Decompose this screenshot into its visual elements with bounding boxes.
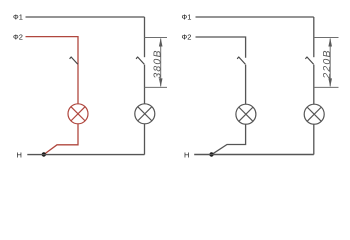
dimension tick top (left circuit) [145, 37, 168, 39]
dimension tick bottom (left circuit) [145, 86, 168, 88]
switch S2 (black branch, left circuit) [136, 57, 144, 65]
lamp HL4 (right circuit) [304, 104, 324, 124]
lamp HL3 (right circuit) [236, 104, 256, 124]
svg-text:380В: 380В [152, 49, 164, 78]
svg-text:220В: 220В [321, 49, 333, 79]
lamp HL2 (left circuit) [135, 104, 155, 124]
wire black lamp-to-neutral (left circuit) [144, 124, 146, 155]
wire red switch-to-lamp (left circuit) [77, 65, 79, 104]
node junction dot (left circuit) [42, 152, 46, 156]
dimension arrowhead up (left circuit) [159, 38, 163, 47]
dimension arrowhead down (left circuit) [159, 78, 163, 87]
wire Ф2 horizontal red (left circuit) [26, 37, 79, 65]
wire Ф1 horizontal (left circuit) [26, 16, 145, 18]
wire neutral horizontal (right circuit) [194, 154, 314, 156]
svg-text:Ф2: Ф2 [13, 33, 23, 42]
wire black switch-to-lamp (left circuit) [144, 65, 146, 104]
wire Ф1 branch vertical upper (right circuit) [313, 17, 315, 57]
dimension tick bottom (right circuit) [314, 86, 339, 88]
lamp HL1 red (left circuit) [68, 104, 88, 124]
wire Ф1 horizontal (right circuit) [196, 16, 314, 18]
switch S3 (left branch, right circuit) [237, 57, 245, 65]
wire neutral horizontal (left circuit) [27, 154, 144, 156]
dimension arrowhead up (right circuit) [328, 38, 332, 47]
wire switch-to-lamp (left branch, right circuit) [245, 65, 247, 105]
svg-text:Н: Н [184, 150, 189, 159]
wire Ф1 branch vertical upper (left circuit) [144, 17, 146, 57]
dimension arrowhead down (right circuit) [328, 78, 332, 87]
wire lamp-to-neutral (right branch, right circuit) [313, 124, 315, 154]
wire switch-to-lamp (right branch, right circuit) [313, 65, 315, 105]
dimension arrow line 380В (left circuit) [160, 39, 162, 87]
svg-text:Ф2: Ф2 [182, 33, 192, 42]
switch S1 (red branch, left circuit) [70, 57, 78, 65]
dimension arrow line 220В (right circuit) [329, 39, 331, 87]
switch S4 (right branch, right circuit) [305, 57, 313, 65]
wire red lamp-to-neutral jog (left circuit) [44, 124, 78, 155]
wire lamp-to-neutral jog (right circuit) [212, 124, 246, 154]
node junction dot (right circuit) [209, 152, 213, 156]
wire Ф2 horizontal (right circuit) [196, 37, 246, 58]
dimension tick top (right circuit) [314, 37, 339, 39]
svg-text:Ф1: Ф1 [13, 12, 23, 21]
svg-text:Н: Н [17, 150, 22, 159]
svg-text:Ф1: Ф1 [182, 12, 192, 21]
